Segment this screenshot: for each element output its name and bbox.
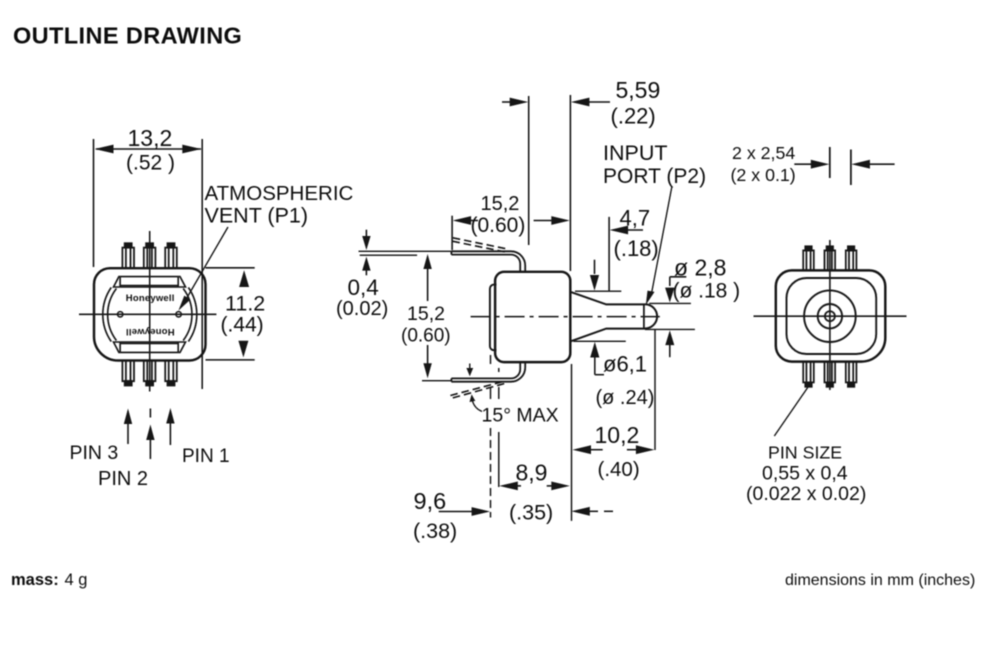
leader to input port [646,186,672,305]
dimension 13,2 (.52) [94,139,203,389]
rear view bottom pin middle [825,362,836,387]
label PIN SIZE with leader [774,387,808,436]
dimension 10,2 (.40) [573,445,655,454]
svg-text:Honeywell: Honeywell [126,326,175,337]
rear view small circle (vent) [825,311,835,321]
svg-text:9,6: 9,6 [414,488,447,514]
rear view bottom pin right [846,362,857,387]
rear view vertical centerline [829,240,831,390]
svg-text:(ø .24): (ø .24) [596,387,655,409]
svg-text:4,7: 4,7 [620,206,651,231]
Honeywell logo top [126,293,175,304]
svg-text:(.35): (.35) [509,500,553,524]
side view top pin bent 15 deg (dashed) [452,238,508,253]
dimension 15,2 (0.60) horizontal [452,216,570,250]
dimension diameter 6,1 (.24) [573,260,625,375]
svg-text:VENT (P1): VENT (P1) [205,203,309,227]
svg-text:4 g: 4 g [65,571,88,589]
svg-text:15,2: 15,2 [481,193,520,215]
front view horizontal centerline [79,313,216,315]
rear view top pin middle [825,246,836,270]
svg-text:(2 x 0.1): (2 x 0.1) [731,165,796,185]
label INPUT PORT (P2) [603,141,706,188]
svg-text:(ø .18 ): (ø .18 ) [673,279,741,302]
rear view horizontal centerline [754,315,907,317]
front view inner can right arcs [183,288,197,342]
small arrow at bottom pin bend [466,364,473,377]
Honeywell logo bottom (rotated) [126,326,175,337]
svg-text:0,4: 0,4 [348,275,379,300]
pressure port tip [644,304,657,329]
dimension 2 x 2,54 (2 x 0.1) [794,147,894,185]
dimension 0,4 (0.02) pin thickness [359,230,452,276]
label 15 deg MAX with leader [470,394,483,411]
svg-text:INPUT: INPUT [603,141,668,165]
front view bottom pin right [165,361,177,386]
side view bottom pin bent 15 deg (dashed) [450,381,504,398]
side view horizontal centerline (dash-dot) [471,316,660,318]
extension lines below body [491,330,656,521]
svg-text:(.52 ): (.52 ) [126,151,175,174]
side view top pin (solid) [451,251,525,271]
svg-text:(0.022 x 0.02): (0.022 x 0.02) [746,483,866,505]
rear view large circle [804,290,856,342]
svg-text:OUTLINE DRAWING: OUTLINE DRAWING [13,23,242,49]
dimension 4,7 (.18) [609,217,643,291]
label PIN 3 [70,442,119,464]
svg-text:dimensions in mm (inches): dimensions in mm (inches) [785,572,975,589]
pin 3 arrow [124,409,132,445]
svg-text:(.22): (.22) [611,103,656,128]
front view top pin right [165,243,177,268]
pressure port taper and neck [570,292,645,342]
front view top bar [114,277,186,287]
leader to vent hole [178,227,228,311]
front view top pin left [122,243,134,268]
svg-text:15° MAX: 15° MAX [482,405,559,427]
rear view bottom pin left [803,362,814,387]
dimension diameter 2,8 (.18) [645,277,695,357]
svg-text:ATMOSPHERIC: ATMOSPHERIC [205,182,354,205]
rear view top pin left [803,246,814,270]
svg-text:ø 2,8: ø 2,8 [674,255,726,281]
front view top pin middle [144,243,156,268]
svg-text:15,2: 15,2 [407,303,445,325]
svg-text:mass:: mass: [11,571,59,589]
dimension 9,6 (.38) [439,507,613,516]
svg-text:PIN SIZE: PIN SIZE [768,442,842,462]
dimension 11.2 (.44) [206,268,255,360]
bottom note mass [11,571,87,589]
svg-text:Honeywell: Honeywell [126,293,175,304]
side view bottom pin (solid) [451,363,525,382]
dimension 5,59 (.22) [502,95,610,271]
svg-text:0,55 x 0,4: 0,55 x 0,4 [762,462,848,484]
svg-text:PORT (P2): PORT (P2) [603,165,706,188]
front view vertical centerline [149,231,152,418]
dimension 8,9 (.35) [499,482,570,491]
svg-text:2 x 2,54: 2 x 2,54 [732,143,795,163]
svg-text:PIN 3: PIN 3 [70,442,119,464]
svg-text:ø6,1: ø6,1 [603,352,647,377]
bottom note dimensions [785,572,975,589]
svg-text:(0.60): (0.60) [401,326,451,347]
svg-text:PIN 1: PIN 1 [182,446,230,467]
svg-text:(.40): (.40) [598,458,640,481]
svg-text:(.18): (.18) [614,236,659,261]
front view bottom pin middle [144,361,156,386]
front view bottom bar [114,342,186,352]
rear view package body outline [776,270,886,361]
svg-text:8,9: 8,9 [516,460,548,486]
svg-text:(0.02): (0.02) [336,298,388,320]
rear view inner frame [787,278,877,354]
svg-text:PIN 2: PIN 2 [98,468,148,490]
front view bottom pin left [122,361,134,386]
front view package body outline [94,268,206,360]
label PIN 1 [182,446,230,467]
svg-text:13,2: 13,2 [128,125,173,151]
svg-text:(.38): (.38) [413,519,457,543]
pin 2 arrow [146,425,154,460]
svg-text:(.44): (.44) [221,313,264,336]
front view inner can left arcs [103,288,117,342]
svg-text:(0.60): (0.60) [471,214,526,237]
side view flange plate [490,285,497,351]
side view body [495,272,570,362]
label PIN 2 [98,468,148,490]
rear view top pin right [846,246,857,270]
atmospheric vent hole left [118,312,123,317]
dimension 15,2 (0.60) vertical [422,254,451,381]
pin 1 arrow [166,408,174,445]
atmospheric vent hole right (P1) [176,312,181,317]
rear view middle circle [818,304,842,328]
svg-text:5,59: 5,59 [616,77,661,103]
svg-text:11.2: 11.2 [225,292,265,316]
svg-text:10,2: 10,2 [595,422,640,448]
label ATMOSPHERIC VENT (P1) [205,182,354,228]
